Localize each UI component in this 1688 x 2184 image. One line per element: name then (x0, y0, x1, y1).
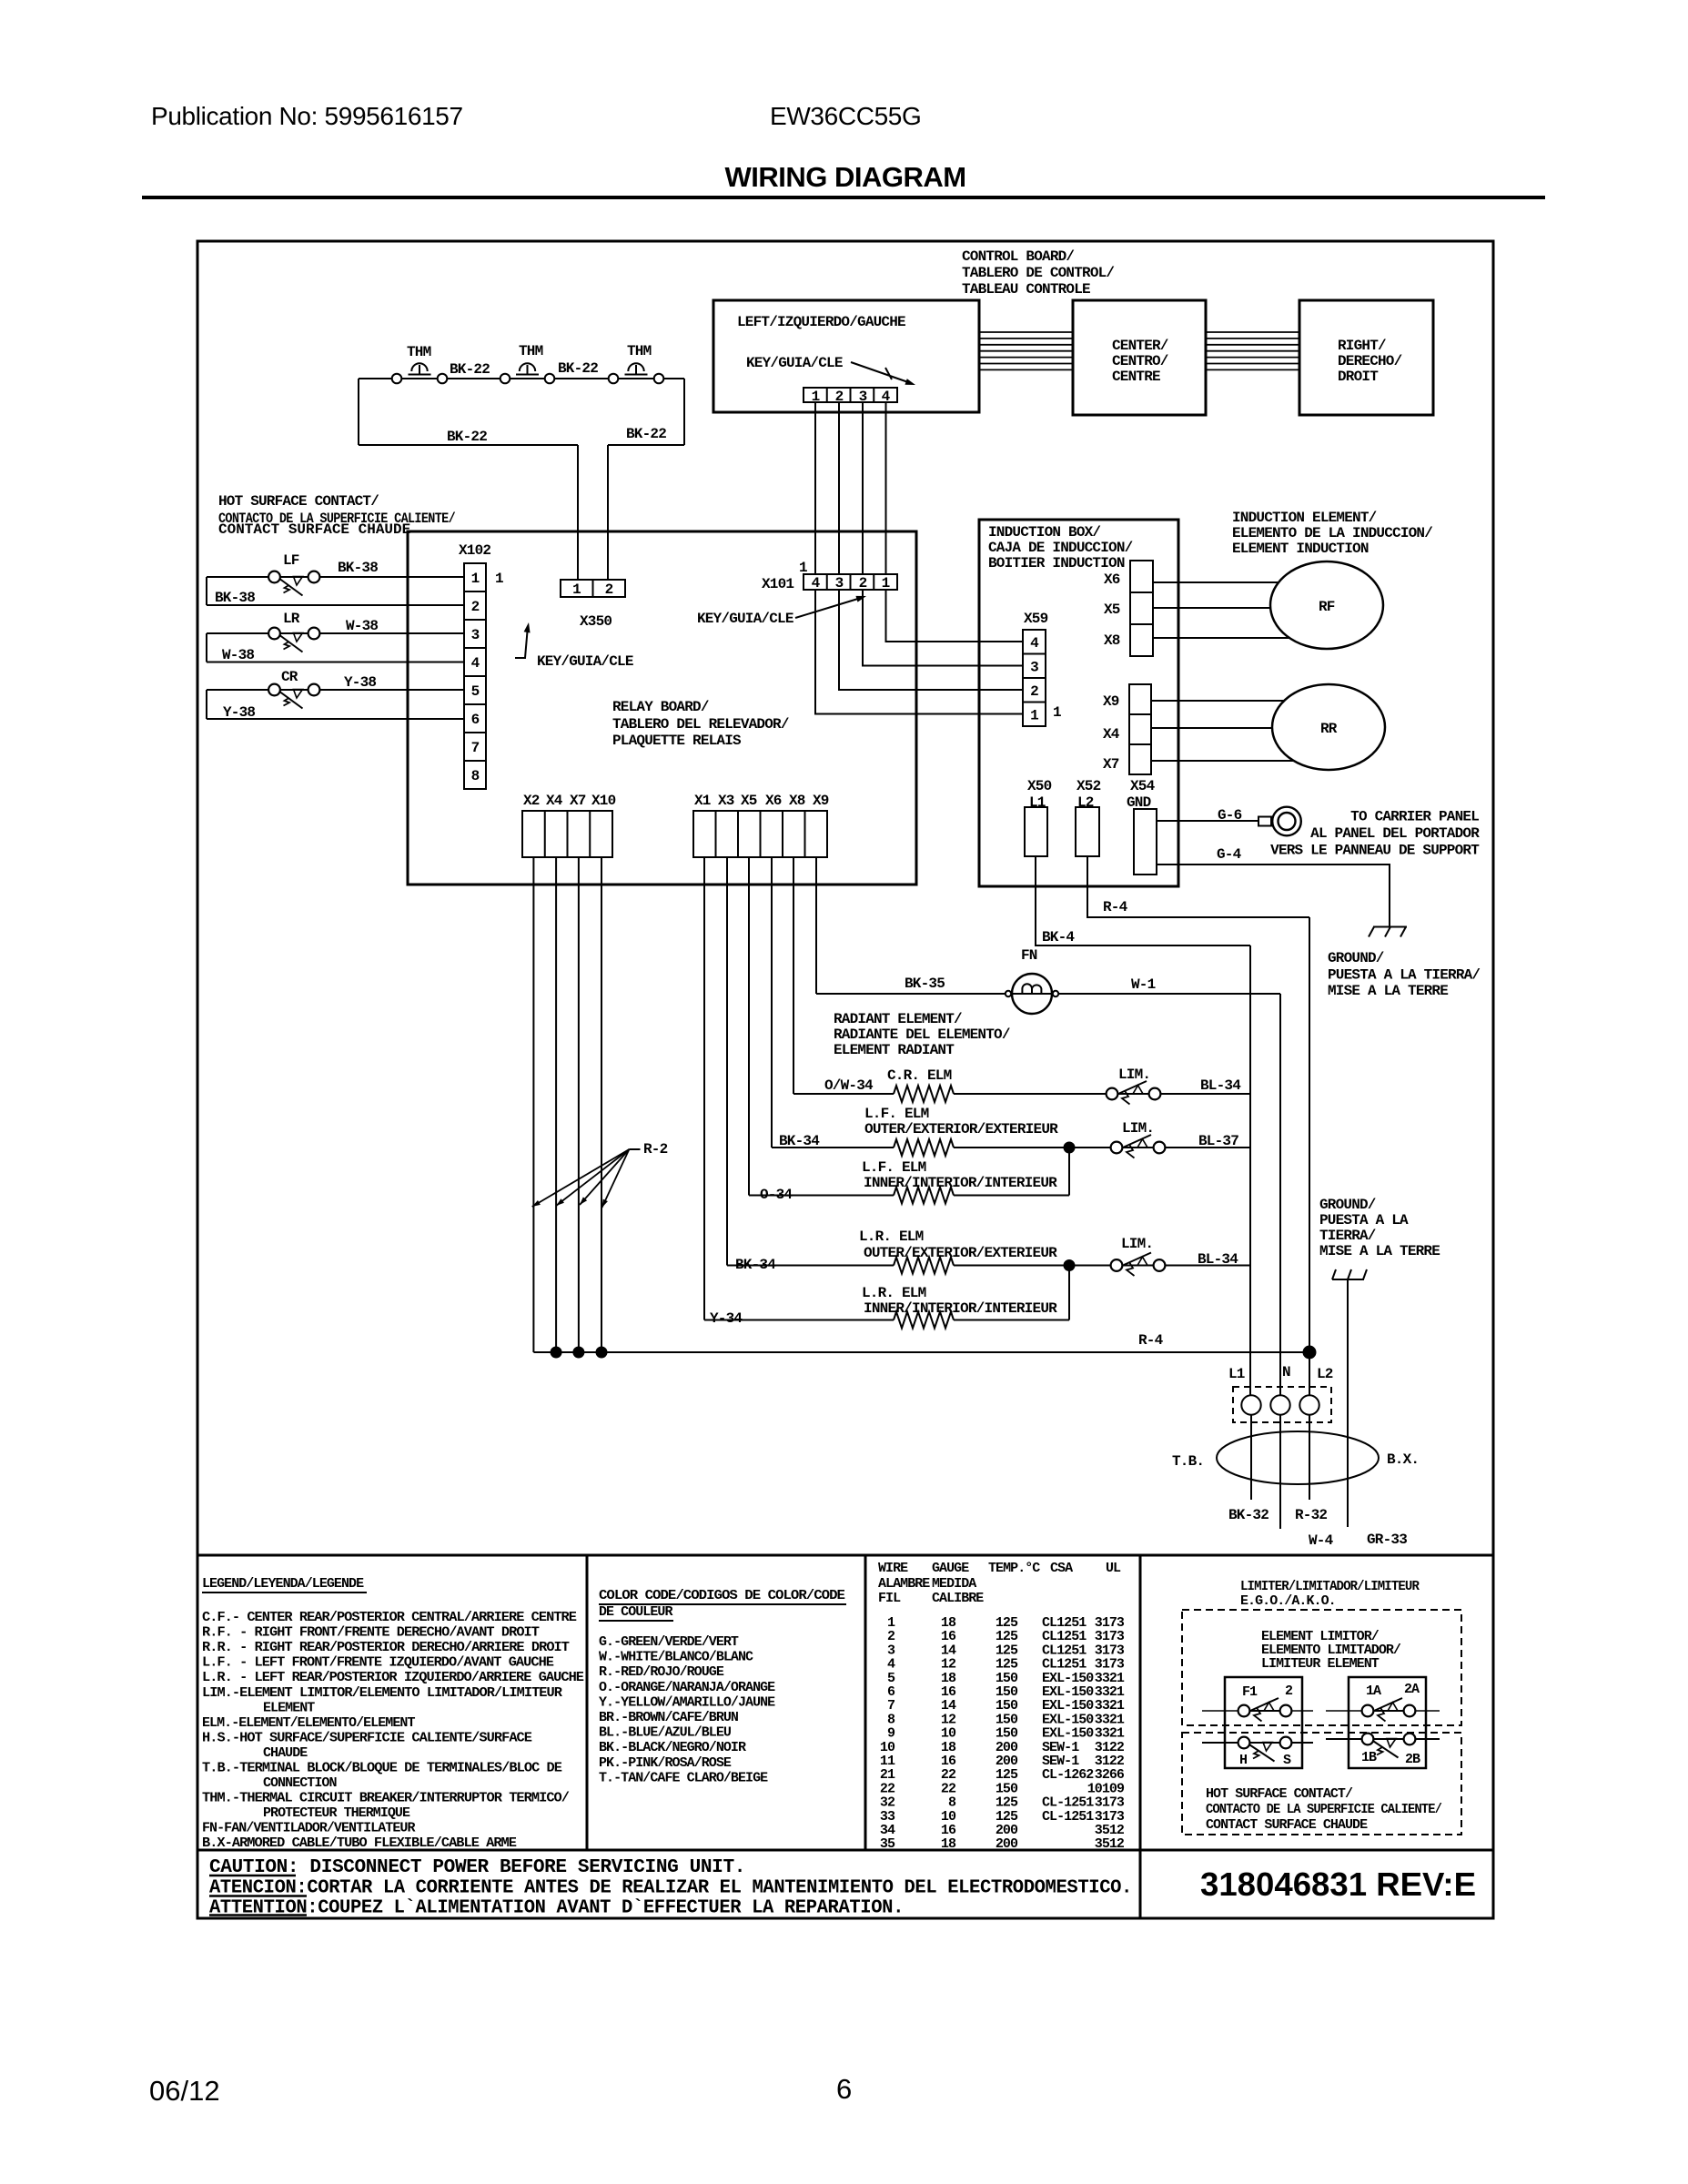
svg-text:CALIBRE: CALIBRE (932, 1591, 984, 1606)
svg-text:200: 200 (996, 1836, 1018, 1852)
THM breaker symbol 2 (516, 374, 539, 376)
svg-text:B.X-ARMORED CABLE/TUBO FLEXIBL: B.X-ARMORED CABLE/TUBO FLEXIBLE/CABLE AR… (202, 1835, 517, 1851)
connector X6/X5/X8 (1130, 561, 1153, 656)
svg-text:LIM.: LIM. (1121, 1236, 1153, 1252)
svg-text:T.-TAN/CAFE CLARO/BEIGE: T.-TAN/CAFE CLARO/BEIGE (599, 1770, 768, 1785)
divider color-code/wire-table (864, 1555, 867, 1850)
svg-text:CL-1251: CL-1251 (1042, 1809, 1094, 1825)
wire X8 to RF (1153, 637, 1289, 639)
wire C.R. row left (793, 1093, 894, 1095)
ground symbol (armored cable) (1332, 1279, 1364, 1280)
svg-text:FN: FN (1021, 947, 1037, 964)
ring terminal G-6 (1258, 817, 1271, 826)
resistor L.F. inner element (894, 1188, 954, 1204)
limiter dashed box upper (1182, 1610, 1461, 1725)
svg-text:6: 6 (836, 2073, 852, 2105)
svg-text:X6: X6 (1104, 571, 1120, 588)
svg-text:DERECHO/: DERECHO/ (1338, 353, 1402, 369)
wire R-4 bottom bus (533, 1351, 1309, 1353)
wire X10 drop to R-4 bus (601, 857, 602, 1352)
svg-text:BK-38: BK-38 (338, 560, 378, 576)
svg-text:KEY/GUIA/CLE: KEY/GUIA/CLE (537, 653, 633, 670)
connector group X2 X4 X7 X10 (522, 811, 612, 857)
wire BK-22 right drop (683, 379, 685, 445)
svg-text:GAUGE: GAUGE (932, 1561, 969, 1576)
hot surface contact LF (268, 571, 280, 583)
junction dot L.R. (1064, 1260, 1075, 1271)
wire X3 drop to L.R. outer (726, 857, 728, 1266)
svg-text:X54: X54 (1130, 778, 1156, 794)
svg-text:MISE A LA TERRE: MISE A LA TERRE (1319, 1243, 1440, 1259)
svg-text:TO CARRIER PANEL: TO CARRIER PANEL (1350, 809, 1479, 825)
wire to X350 pin 1 (577, 445, 579, 580)
terminal block dashed box (1233, 1387, 1331, 1422)
svg-text:E.G.O./A.K.O.: E.G.O./A.K.O. (1240, 1593, 1336, 1609)
svg-text:TABLERO DEL RELEVADOR/: TABLERO DEL RELEVADOR/ (612, 716, 789, 733)
THM breaker terminals 3 (609, 374, 619, 384)
wire LF loop left edge (206, 577, 207, 605)
svg-text:TABLEAU CONTROLE: TABLEAU CONTROLE (962, 281, 1090, 298)
svg-text:PUESTA A LA: PUESTA A LA (1319, 1212, 1409, 1228)
resistor L.R. inner element (894, 1312, 954, 1329)
svg-text:TEMP.°C: TEMP.°C (988, 1561, 1040, 1576)
svg-text:1B: 1B (1361, 1750, 1377, 1765)
limiter contact F1-2 (1244, 1710, 1286, 1712)
svg-text:S: S (1283, 1753, 1291, 1768)
svg-text:THM.-THERMAL CIRCUIT BREAKER/I: THM.-THERMAL CIRCUIT BREAKER/INTERRUPTOR… (202, 1791, 570, 1806)
svg-text:CONTACT SURFACE CHAUDE: CONTACT SURFACE CHAUDE (218, 521, 410, 538)
svg-text:BK-22: BK-22 (447, 429, 487, 445)
svg-text:1: 1 (572, 581, 581, 598)
svg-text:2: 2 (1030, 683, 1038, 700)
svg-text:CAJA DE INDUCCION/: CAJA DE INDUCCION/ (988, 540, 1133, 556)
key arrow near X350 (515, 626, 528, 658)
armored cable ellipse T.B./B.X. (1217, 1431, 1379, 1484)
hot surface contact CR (268, 684, 280, 696)
caution row top border (197, 1849, 1493, 1852)
wire X4 drop to R-4 bus (555, 857, 557, 1352)
svg-text:RADIANT ELEMENT/: RADIANT ELEMENT/ (834, 1011, 962, 1027)
wire L.R. inner right (954, 1319, 1069, 1321)
wire stub lower left (1202, 1742, 1313, 1744)
svg-text:B.X.: B.X. (1387, 1451, 1419, 1468)
wire X5 drop to L.F. inner (748, 857, 750, 1196)
svg-text:L2: L2 (1077, 794, 1094, 811)
wire X101-4 to X59-1 (815, 590, 1023, 714)
svg-text:W-4: W-4 (1309, 1532, 1334, 1549)
wire R-4 from X52 to L2 bus (1087, 856, 1309, 917)
connector X9/X4/X7 (1129, 684, 1151, 774)
svg-text:THM: THM (519, 343, 543, 359)
svg-text:1: 1 (1053, 704, 1061, 721)
wire GR-33 ground lead (1347, 1279, 1349, 1527)
wire CR loop left edge (206, 690, 207, 719)
wire X5 to RF (1153, 607, 1270, 609)
svg-text:CHAUDE: CHAUDE (263, 1745, 308, 1761)
svg-text:WIRING DIAGRAM: WIRING DIAGRAM (724, 161, 965, 193)
svg-text:RELAY BOARD/: RELAY BOARD/ (612, 699, 709, 715)
relay board box (408, 531, 916, 885)
svg-text:T.B.-TERMINAL BLOCK/BLOQUE DE: T.B.-TERMINAL BLOCK/BLOQUE DE TERMINALES… (202, 1761, 562, 1776)
svg-text:TABLERO DE CONTROL/: TABLERO DE CONTROL/ (962, 265, 1114, 281)
control board CENTER box (1073, 300, 1206, 415)
svg-text:PLAQUETTE RELAIS: PLAQUETTE RELAIS (612, 733, 742, 749)
svg-text:BK-38: BK-38 (215, 590, 255, 606)
svg-text:L.R. ELM: L.R. ELM (859, 1228, 924, 1245)
svg-text:W-38: W-38 (346, 618, 378, 634)
THM breaker terminals 1 (392, 374, 402, 384)
limiter contact 1A-2A (1368, 1710, 1410, 1712)
svg-text:CENTER/: CENTER/ (1112, 338, 1168, 354)
svg-text:H.S.-HOT SURFACE/SUPERFICIE CA: H.S.-HOT SURFACE/SUPERFICIE CALIENTE/SUR… (202, 1730, 532, 1745)
wire L2 vertical bus (1309, 917, 1310, 1395)
svg-text:2: 2 (471, 599, 480, 615)
svg-text:R-32: R-32 (1295, 1507, 1327, 1523)
ground symbol (carrier panel) (1373, 926, 1407, 928)
terminal L1 circle (1241, 1395, 1260, 1414)
svg-text:G-6: G-6 (1218, 807, 1242, 824)
svg-text:C.R. ELM: C.R. ELM (887, 1067, 952, 1084)
svg-text:HOT SURFACE CONTACT/: HOT SURFACE CONTACT/ (1206, 1786, 1353, 1802)
svg-text:BR.-BROWN/CAFE/BRUN: BR.-BROWN/CAFE/BRUN (599, 1710, 739, 1725)
svg-text:1: 1 (495, 571, 503, 587)
svg-text:6: 6 (471, 712, 480, 728)
connector X350 (561, 580, 625, 597)
fan FN (1012, 974, 1052, 1014)
wire L.R. inner up to junction (1068, 1266, 1070, 1320)
svg-text:BK-32: BK-32 (1228, 1507, 1269, 1523)
svg-text:TIERRA/: TIERRA/ (1319, 1228, 1376, 1244)
connector X102 pins 1-8 (464, 563, 486, 789)
svg-text:2: 2 (1285, 1683, 1293, 1699)
svg-text:LEGEND/LEYENDA/LEGENDE: LEGEND/LEYENDA/LEGENDE (202, 1576, 364, 1592)
svg-text:X7: X7 (1103, 756, 1119, 773)
svg-text:LEFT/IZQUIERDO/GAUCHE: LEFT/IZQUIERDO/GAUCHE (737, 314, 905, 330)
wire stub upper mid-left (1244, 1710, 1286, 1712)
svg-text:UL: UL (1106, 1561, 1121, 1576)
wire LF loop bottom run (207, 604, 464, 606)
svg-text:Y-38: Y-38 (223, 704, 255, 721)
svg-text:ELEMENT INDUCTION: ELEMENT INDUCTION (1232, 541, 1369, 557)
svg-text:Y-38: Y-38 (344, 674, 376, 691)
svg-text:X59: X59 (1024, 611, 1048, 627)
wire BL-34 (C.R.) to L1 bus (1160, 1093, 1250, 1095)
svg-text:INNER/INTERIOR/INTERIEUR: INNER/INTERIOR/INTERIEUR (864, 1175, 1057, 1191)
svg-text:X4: X4 (546, 793, 563, 809)
svg-text:FIL: FIL (878, 1591, 901, 1606)
wire BK-22 left drop (358, 379, 359, 445)
svg-text:CONTROL BOARD/: CONTROL BOARD/ (962, 248, 1074, 265)
limiter dashed box lower (1182, 1733, 1461, 1835)
wire X6 drop to L.F. outer (771, 857, 773, 1148)
svg-text:18: 18 (941, 1836, 956, 1852)
svg-text:G.-GREEN/VERDE/VERT: G.-GREEN/VERDE/VERT (599, 1634, 739, 1650)
svg-text:3: 3 (835, 575, 844, 591)
svg-text:2: 2 (859, 575, 867, 591)
wire CR loop bottom run (207, 718, 464, 720)
junction dot L2/bus (1303, 1346, 1316, 1359)
svg-text:Y.-YELLOW/AMARILLO/JAUNE: Y.-YELLOW/AMARILLO/JAUNE (599, 1694, 775, 1710)
hot surface contact H-S (1238, 1737, 1250, 1749)
wire key-2 LEFT board to X101 (838, 402, 840, 574)
svg-text:R-4: R-4 (1103, 899, 1128, 915)
svg-text:X6: X6 (765, 793, 782, 809)
control board LEFT box (713, 300, 979, 412)
svg-text:KEY/GUIA/CLE: KEY/GUIA/CLE (746, 355, 843, 371)
svg-text:CONTACT SURFACE CHAUDE: CONTACT SURFACE CHAUDE (1206, 1817, 1368, 1833)
main diagram border (197, 241, 1493, 1918)
svg-text:F1: F1 (1242, 1684, 1258, 1700)
svg-text:BL-34: BL-34 (1198, 1251, 1238, 1268)
svg-text:L.R. ELM: L.R. ELM (862, 1285, 926, 1301)
svg-text:ALAMBRE: ALAMBRE (878, 1576, 930, 1592)
svg-text:GROUND/: GROUND/ (1319, 1197, 1376, 1213)
svg-text:CENTRO/: CENTRO/ (1112, 353, 1168, 369)
svg-text:PUESTA A LA TIERRA/: PUESTA A LA TIERRA/ (1328, 967, 1480, 984)
wire G-6 (1157, 820, 1258, 822)
R-2 arrow to wire at x=661.5 (602, 1149, 630, 1208)
svg-text:FN-FAN/VENTILADOR/VENTILATEUR: FN-FAN/VENTILADOR/VENTILATEUR (202, 1821, 415, 1836)
wire L.R. outer left (727, 1265, 894, 1267)
wire L.R. inner left (704, 1319, 894, 1321)
wire L.F. outer left (772, 1147, 894, 1148)
svg-text:VERS LE PANNEAU DE SUPPORT: VERS LE PANNEAU DE SUPPORT (1270, 843, 1480, 859)
title rule (142, 196, 1545, 199)
wire X9 drop to fan row (815, 857, 817, 994)
limiter switch (L.F.) (1117, 1147, 1159, 1148)
svg-text:1: 1 (1030, 708, 1038, 724)
induction element RF (1270, 561, 1383, 649)
svg-text:R.-RED/ROJO/ROUGE: R.-RED/ROJO/ROUGE (599, 1664, 724, 1680)
svg-text:ATTENTION:COUPEZ L`ALIMENTATIO: ATTENTION:COUPEZ L`ALIMENTATION AVANT D`… (209, 1898, 904, 1919)
svg-text:MEDIDA: MEDIDA (932, 1576, 976, 1592)
limiter element switch box (left) (1225, 1677, 1302, 1768)
svg-text:R.F. - RIGHT FRONT/FRENTE DERE: R.F. - RIGHT FRONT/FRENTE DERECHO/AVANT … (202, 1625, 540, 1641)
svg-text:O/W-34: O/W-34 (824, 1077, 874, 1094)
svg-text:X5: X5 (741, 793, 757, 809)
wire X7 to RR (1151, 760, 1294, 762)
svg-text:BK-22: BK-22 (558, 360, 598, 377)
svg-text:ELEMENT RADIANT: ELEMENT RADIANT (834, 1042, 955, 1058)
svg-text:GROUND/: GROUND/ (1328, 950, 1384, 966)
THM breaker symbol 3 (625, 374, 648, 376)
wire X101-1 to X59-4 (886, 590, 1024, 642)
svg-text:GR-33: GR-33 (1367, 1532, 1407, 1548)
svg-text:35: 35 (880, 1836, 895, 1852)
svg-text:C.F.- CENTER REAR/POSTERIOR CE: C.F.- CENTER REAR/POSTERIOR CENTRAL/ARRI… (202, 1610, 577, 1625)
svg-text:8: 8 (471, 768, 480, 784)
svg-text:Publication No: 5995616157: Publication No: 5995616157 (151, 102, 463, 130)
resistor C.R. element (894, 1086, 954, 1102)
svg-text:WIRE: WIRE (878, 1561, 908, 1576)
svg-text:INNER/INTERIOR/INTERIEUR: INNER/INTERIOR/INTERIEUR (864, 1300, 1057, 1317)
wire X8 drop to C.R. row (793, 857, 794, 1094)
svg-text:CR: CR (281, 669, 298, 685)
R-2 arrow to wire at x=584.7 (532, 1149, 630, 1207)
junction dot X7/bus (573, 1347, 584, 1358)
svg-text:X7: X7 (570, 793, 586, 809)
wire BK-22 top run (359, 378, 684, 379)
wire X6 to RF (1153, 581, 1279, 583)
svg-text:Y-34: Y-34 (710, 1310, 743, 1327)
svg-text:R-2: R-2 (643, 1141, 668, 1158)
connector X54 (1134, 809, 1157, 875)
R-2 leader tick (629, 1148, 640, 1150)
svg-text:BL.-BLUE/AZUL/BLEU: BL.-BLUE/AZUL/BLEU (599, 1725, 732, 1741)
ribbon cable LEFT-CENTER (979, 331, 1073, 333)
svg-text:AL PANEL DEL PORTADOR: AL PANEL DEL PORTADOR (1310, 825, 1480, 842)
svg-text:X350: X350 (580, 613, 612, 630)
svg-text:LF: LF (283, 552, 299, 569)
control board RIGHT box (1299, 300, 1433, 415)
svg-text:CONTACTO DE LA SUPERFICIE CALI: CONTACTO DE LA SUPERFICIE CALIENTE/ (1206, 1802, 1442, 1817)
induction element RR (1272, 684, 1385, 770)
wire C.R. row middle (954, 1093, 1107, 1095)
wire BK-22 bottom right run (608, 444, 684, 446)
svg-text:PROTECTEUR THERMIQUE: PROTECTEUR THERMIQUE (263, 1805, 410, 1821)
svg-text:X8: X8 (1104, 632, 1120, 649)
svg-text:R.R. - RIGHT REAR/POSTERIOR DE: R.R. - RIGHT REAR/POSTERIOR DERECHO/ARRI… (202, 1640, 570, 1655)
svg-text:THM: THM (627, 343, 652, 359)
svg-text:HOT SURFACE CONTACT/: HOT SURFACE CONTACT/ (218, 493, 379, 510)
svg-text:BK-35: BK-35 (905, 976, 945, 992)
svg-text:L.R. - LEFT REAR/POSTERIOR IZQ: L.R. - LEFT REAR/POSTERIOR IZQUIERDO/ARR… (202, 1670, 584, 1685)
wire X101-3 to X59-2 (839, 590, 1023, 690)
connector X101 (804, 574, 897, 590)
svg-text:COLOR CODE/CODIGOS DE COLOR/CO: COLOR CODE/CODIGOS DE COLOR/CODE (599, 1588, 845, 1603)
connector strip pins 1-4 on LEFT board (804, 388, 897, 402)
svg-text:BL-37: BL-37 (1198, 1133, 1238, 1149)
svg-text:7: 7 (471, 740, 480, 756)
svg-text:BL-34: BL-34 (1200, 1077, 1241, 1094)
svg-text:INDUCTION BOX/: INDUCTION BOX/ (988, 524, 1100, 541)
svg-text:DROIT: DROIT (1338, 369, 1379, 385)
wire X4 to RR (1151, 727, 1272, 729)
svg-text:LIM.: LIM. (1122, 1120, 1154, 1137)
svg-text:O.-ORANGE/NARANJA/ORANGE: O.-ORANGE/NARANJA/ORANGE (599, 1680, 775, 1695)
svg-text:5: 5 (471, 683, 480, 700)
svg-text:ATENCION:CORTAR LA CORRIENTE A: ATENCION:CORTAR LA CORRIENTE ANTES DE RE… (209, 1878, 1132, 1899)
THM breaker symbol 1 (409, 374, 431, 376)
wire W-1 from fan (1058, 993, 1280, 995)
wire X1 drop to L.R. inner (703, 857, 705, 1320)
junction dot X4/bus (551, 1347, 561, 1358)
svg-text:1: 1 (882, 575, 890, 591)
limiter switch (L.R.) (1117, 1265, 1159, 1267)
svg-text:X9: X9 (813, 793, 829, 809)
svg-text:H: H (1239, 1753, 1247, 1768)
svg-text:DE COULEUR: DE COULEUR (599, 1604, 672, 1620)
wire X101-2 to X59-3 (863, 590, 1023, 666)
svg-text:BK.-BLACK/NEGRO/NOIR: BK.-BLACK/NEGRO/NOIR (599, 1740, 746, 1755)
connector X52 (1076, 807, 1099, 856)
svg-text:4: 4 (1030, 635, 1039, 652)
wire R-32 below L2 (1309, 1415, 1310, 1500)
ribbon cable CENTER-RIGHT (1206, 331, 1299, 333)
connector X50 (1025, 807, 1047, 856)
wire LR top run (207, 632, 464, 634)
svg-text:N: N (1282, 1364, 1290, 1380)
svg-text:CL-1262: CL-1262 (1042, 1767, 1094, 1783)
svg-text:INDUCTION ELEMENT/: INDUCTION ELEMENT/ (1232, 510, 1377, 526)
wire CR top run (207, 689, 464, 691)
svg-text:ELEMENT: ELEMENT (263, 1700, 315, 1715)
THM breaker terminals 2 (500, 374, 510, 384)
terminal N circle (1270, 1395, 1289, 1414)
wire BK-4 from X50 to L1 bus (1036, 856, 1250, 945)
svg-text:LIMITEUR ELEMENT: LIMITEUR ELEMENT (1261, 1656, 1380, 1672)
wire L.F. inner left (749, 1195, 894, 1197)
wire X7 drop to R-4 bus (578, 857, 580, 1352)
induction box (979, 520, 1178, 886)
svg-text:RIGHT/: RIGHT/ (1338, 338, 1386, 354)
svg-text:L2: L2 (1317, 1366, 1333, 1382)
svg-text:2B: 2B (1405, 1752, 1420, 1767)
R-2 arrow to wire at x=637 (580, 1149, 629, 1205)
wire BK-35 to fan (816, 993, 1006, 995)
wire L1 vertical bus (1249, 945, 1251, 1395)
hot surface contact LR (268, 628, 280, 640)
svg-text:RR: RR (1320, 721, 1338, 737)
svg-text:W.-WHITE/BLANCO/BLANC: W.-WHITE/BLANCO/BLANC (599, 1650, 753, 1665)
connector group X1 X3 X5 X6 X8 X9 (693, 811, 827, 857)
wire stub lower (right box) (1326, 1738, 1440, 1740)
svg-text:06/12: 06/12 (149, 2075, 220, 2107)
wire stub upper (right box) left (1326, 1710, 1368, 1712)
wire W-1 vertical to N (1279, 994, 1281, 1395)
svg-text:CSA: CSA (1050, 1561, 1073, 1576)
svg-text:LIM.: LIM. (1118, 1067, 1150, 1083)
wire key-4 LEFT board to X101 (885, 402, 887, 574)
junction dot L.F. (1064, 1142, 1075, 1153)
svg-text:X2: X2 (523, 793, 540, 809)
svg-text:T.B.: T.B. (1172, 1453, 1204, 1470)
hot surface contact 1B-2B (1362, 1734, 1374, 1745)
svg-text:L.F. ELM: L.F. ELM (862, 1159, 926, 1176)
svg-text:3: 3 (1030, 660, 1038, 676)
svg-text:BK-22: BK-22 (626, 426, 666, 442)
svg-text:ELM.-ELEMENT/ELEMENTO/ELEMENT: ELM.-ELEMENT/ELEMENTO/ELEMENT (202, 1715, 415, 1731)
svg-text:THM: THM (407, 344, 431, 360)
svg-text:CONNECTION: CONNECTION (263, 1775, 337, 1791)
svg-text:BOITIER INDUCTION: BOITIER INDUCTION (988, 555, 1125, 571)
svg-text:X101: X101 (762, 576, 793, 592)
svg-text:OUTER/EXTERIOR/EXTERIEUR: OUTER/EXTERIOR/EXTERIEUR (864, 1245, 1057, 1261)
wire L.R. outer middle (954, 1265, 1111, 1267)
svg-text:ELEMENTO DE LA INDUCCION/: ELEMENTO DE LA INDUCCION/ (1232, 525, 1432, 541)
svg-text:R-4: R-4 (1138, 1332, 1164, 1349)
wire LF top run (207, 576, 464, 578)
wire W-4 below N (1279, 1415, 1281, 1529)
wire BL-34 (L.R.) to L1 bus (1165, 1265, 1250, 1267)
svg-text:L1: L1 (1029, 794, 1046, 811)
svg-text:RADIANTE DEL ELEMENTO/: RADIANTE DEL ELEMENTO/ (834, 1026, 1010, 1043)
wire stub upper left (1202, 1710, 1244, 1712)
svg-text:X5: X5 (1104, 602, 1120, 618)
svg-text:LIM.-ELEMENT LIMITOR/ELEMENTO: LIM.-ELEMENT LIMITOR/ELEMENTO LIMITADOR/… (202, 1685, 562, 1701)
svg-text:BK-4: BK-4 (1042, 929, 1075, 945)
wire LR loop left edge (206, 633, 207, 662)
wire stub upper (right box) right (1368, 1710, 1440, 1712)
svg-text:X50: X50 (1027, 778, 1052, 794)
svg-text:W-1: W-1 (1131, 976, 1156, 993)
svg-text:KEY/GUIA/CLE: KEY/GUIA/CLE (697, 611, 793, 627)
svg-text:2A: 2A (1404, 1682, 1420, 1697)
svg-text:MISE A LA TERRE: MISE A LA TERRE (1328, 983, 1448, 999)
wire BK-22 bottom left run (359, 444, 578, 446)
svg-text:X102: X102 (459, 542, 490, 559)
svg-text:X9: X9 (1103, 693, 1119, 710)
